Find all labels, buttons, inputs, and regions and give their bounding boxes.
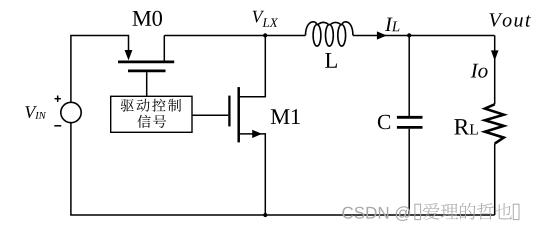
wire node down to capacitor — [408, 36, 410, 117]
wire VIN minus terminal down to bottom rail — [70, 123, 72, 215]
label M0 — [133, 11, 152, 26]
label VIN — [25, 106, 37, 118]
label L — [325, 53, 337, 68]
wire capacitor to bottom rail — [408, 129, 410, 215]
label Vout — [490, 13, 503, 26]
transistor M0 (PMOS switch, arrow into channel) — [118, 36, 174, 71]
wire driver box to M1 gate — [192, 114, 228, 116]
capacitor C plates — [397, 117, 423, 127]
wire M0 source to VLX node and inductor — [164, 35, 305, 37]
wire output node down to resistor — [494, 36, 496, 105]
driver box 驱动控制信号 — [111, 96, 192, 132]
wire resistor to bottom rail — [494, 144, 496, 215]
label Io — [471, 64, 479, 78]
junction dot M1 source to bottom rail — [263, 213, 267, 217]
current arrow Io — [491, 50, 499, 60]
node VLX junction dot — [263, 33, 267, 37]
minus sign of VIN — [54, 125, 61, 127]
watermark CSDN — [342, 203, 519, 221]
voltage source VIN circle — [61, 102, 81, 122]
inductor L coil — [306, 22, 353, 46]
label VLX — [253, 11, 265, 23]
plus sign of VIN — [55, 96, 61, 102]
wire inductor to output node — [353, 35, 495, 37]
transistor M1 (NMOS) — [229, 36, 265, 216]
resistor RL zigzag — [485, 104, 504, 143]
label IL — [385, 18, 393, 31]
wire M0 gate down to driver box — [146, 72, 148, 96]
label RL — [454, 119, 469, 134]
label M1 — [271, 109, 290, 124]
node junction dot at capacitor branch — [407, 33, 411, 37]
current arrow IL — [377, 31, 387, 39]
wire from VIN plus terminal up and right to M0 drain — [71, 36, 129, 103]
bottom ground rail wire — [70, 214, 495, 216]
label C — [378, 115, 390, 129]
